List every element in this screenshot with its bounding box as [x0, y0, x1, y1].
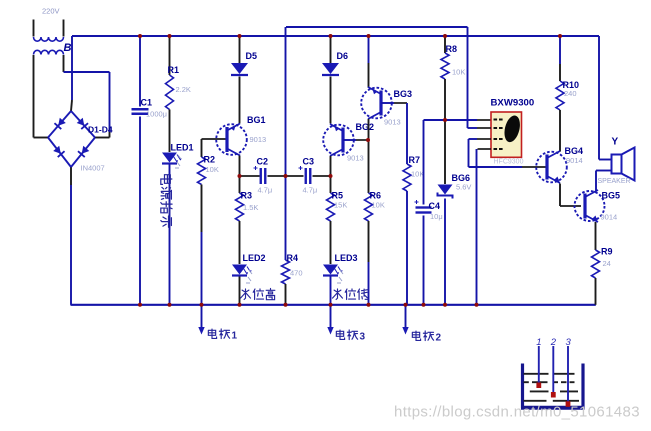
- svg-text:9014: 9014: [566, 156, 583, 165]
- svg-text:10K: 10K: [411, 170, 424, 179]
- svg-text:470: 470: [290, 269, 303, 278]
- svg-text:BG2: BG2: [356, 122, 375, 132]
- svg-text:https://blog.csdn.net/m0_51061: https://blog.csdn.net/m0_51061483: [394, 404, 640, 421]
- svg-text:9013: 9013: [250, 135, 267, 144]
- svg-text:1: 1: [536, 337, 541, 348]
- svg-text:15K: 15K: [334, 201, 347, 210]
- svg-text:9013: 9013: [384, 118, 401, 127]
- svg-text:LED3: LED3: [335, 253, 358, 263]
- svg-text:9013: 9013: [347, 154, 364, 163]
- svg-text:2.2K: 2.2K: [176, 85, 191, 94]
- svg-text:R4: R4: [287, 253, 299, 263]
- svg-text:SPEAKER: SPEAKER: [598, 178, 631, 185]
- svg-text:10K: 10K: [452, 68, 465, 77]
- svg-text:BG4: BG4: [565, 146, 584, 156]
- svg-text:BG1: BG1: [247, 115, 266, 125]
- svg-text:D6: D6: [337, 51, 349, 61]
- svg-text:4.7μ: 4.7μ: [303, 186, 318, 195]
- svg-text:2: 2: [436, 333, 442, 344]
- svg-text:D5: D5: [246, 51, 258, 61]
- svg-text:220V: 220V: [42, 7, 60, 16]
- svg-text:D1-D4: D1-D4: [88, 125, 113, 135]
- svg-text:BG3: BG3: [394, 89, 413, 99]
- svg-text:4.7μ: 4.7μ: [258, 186, 273, 195]
- svg-text:1.5K: 1.5K: [243, 203, 258, 212]
- svg-text:IN4007: IN4007: [81, 164, 105, 173]
- svg-text:10μ: 10μ: [430, 212, 443, 221]
- svg-text:24: 24: [603, 259, 611, 268]
- svg-text:1000μ: 1000μ: [146, 110, 167, 119]
- svg-text:R3: R3: [241, 191, 253, 201]
- svg-text:R9: R9: [601, 247, 613, 257]
- svg-text:R5: R5: [332, 191, 344, 201]
- svg-text:BXW9300: BXW9300: [491, 98, 535, 109]
- svg-text:LED1: LED1: [171, 143, 194, 153]
- svg-text:Y: Y: [612, 137, 619, 148]
- svg-text:240: 240: [564, 89, 577, 98]
- svg-text:2: 2: [550, 337, 557, 348]
- svg-text:C3: C3: [303, 157, 315, 167]
- svg-text:1: 1: [232, 331, 238, 342]
- svg-text:C1: C1: [141, 98, 153, 108]
- svg-text:3: 3: [360, 332, 366, 343]
- svg-text:R8: R8: [446, 44, 458, 54]
- svg-text:C4: C4: [429, 201, 441, 211]
- svg-text:9014: 9014: [601, 213, 618, 222]
- svg-text:5.6V: 5.6V: [456, 183, 471, 192]
- svg-text:LED2: LED2: [243, 253, 266, 263]
- svg-text:R1: R1: [168, 65, 180, 75]
- svg-text:R7: R7: [409, 155, 421, 165]
- svg-text:B: B: [64, 42, 72, 54]
- svg-text:BG6: BG6: [452, 173, 471, 183]
- svg-text:10K: 10K: [206, 165, 219, 174]
- svg-text:10K: 10K: [372, 201, 385, 210]
- svg-text:3: 3: [566, 337, 572, 348]
- svg-text:R6: R6: [370, 191, 382, 201]
- svg-text:BG5: BG5: [602, 191, 621, 201]
- svg-text:C2: C2: [257, 157, 269, 167]
- svg-text:R2: R2: [204, 155, 216, 165]
- svg-text:HFC9300: HFC9300: [494, 159, 524, 166]
